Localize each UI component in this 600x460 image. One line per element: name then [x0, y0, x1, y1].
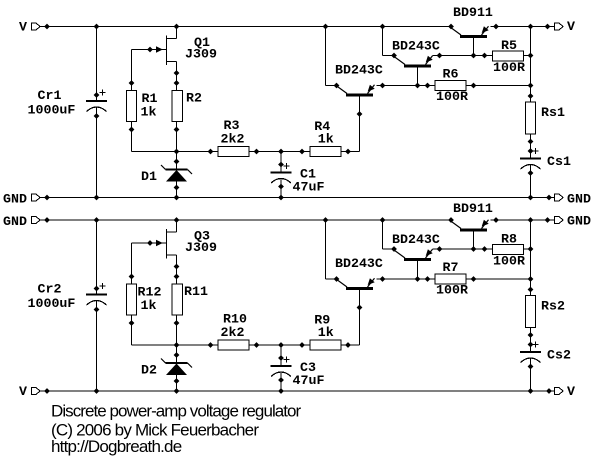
Cr2 plus sign	[99, 283, 105, 289]
junction R4 left pin	[299, 149, 305, 155]
zener diode D1	[161, 165, 192, 182]
wire Q-drv-2 emitter to R8	[433, 248, 493, 250]
wire rail to Q3 drain	[176, 220, 178, 232]
svg-text:BD911: BD911	[453, 5, 493, 20]
svg-text:V: V	[567, 19, 575, 34]
svg-text:R7: R7	[443, 260, 459, 275]
wire Cr2 to V- (bottom)	[96, 301, 98, 391]
junction Cr1 + pin	[94, 92, 100, 98]
zener diode D2	[161, 359, 192, 376]
svg-text:100R: 100R	[493, 254, 525, 269]
Cs2 plus sign	[532, 341, 538, 347]
junction R7 left pin	[425, 276, 431, 282]
svg-text:V: V	[19, 20, 27, 35]
junction bus / sense column	[528, 276, 534, 282]
junction pin dot GND (lower) left	[44, 217, 50, 223]
junction Q3 source wire	[174, 264, 180, 270]
wire V- (bottom) rail	[40, 390, 555, 392]
junction Cr2 + pin	[94, 286, 100, 292]
wire feedback bus segment a	[383, 85, 436, 87]
svg-text:Rs2: Rs2	[541, 299, 565, 314]
wire GND (lower) rail left segment	[40, 219, 452, 221]
svg-text:Cs1: Cs1	[547, 154, 571, 169]
junction D2 cathode pin	[174, 352, 180, 358]
junction D1 cathode pin	[174, 159, 180, 165]
wire R12 bottom	[131, 315, 133, 345]
junction Q-err-2 emitter pin	[380, 276, 386, 282]
junction Rs2 top pin	[528, 287, 534, 293]
junction R11 bottom pin	[174, 320, 180, 326]
wire Rs2 to Cs2	[530, 328, 532, 353]
junction rail / Q1 drain	[174, 24, 180, 30]
junction R1 bottom pin	[129, 127, 135, 133]
resistor R5 100R	[493, 51, 524, 61]
resistor Rs2	[526, 296, 536, 328]
svg-text:Cs2: Cs2	[547, 348, 571, 363]
junction Q-drv-2 collector pin	[391, 246, 397, 252]
junction rail / Q-drv-2 collector	[380, 217, 386, 223]
wire V+ (top) rail right segment	[496, 26, 555, 28]
junction pin dot V- (bottom) right	[546, 388, 552, 394]
C1 plus sign	[283, 163, 289, 169]
junction rail / Q-err-2 collector	[323, 217, 329, 223]
resistor R3 2k2	[218, 147, 249, 157]
wire Q-drv-2 collector riser to rail	[382, 220, 384, 249]
capacitor C1 47uF	[271, 173, 292, 184]
wire Cs1 to GND (upper)	[530, 165, 532, 198]
junction Cr1 / GND (upper)	[94, 195, 100, 201]
wire bus to D2	[176, 345, 178, 363]
Cs1 plus sign	[532, 148, 538, 154]
wire Q1 gate to R1	[131, 50, 133, 91]
junction R3 left pin	[208, 149, 214, 155]
resistor R9 1k	[310, 340, 341, 350]
svg-text:47uF: 47uF	[293, 180, 325, 195]
port GND (lower) right connector	[555, 216, 564, 223]
junction rail / Q-pass-2 collector	[448, 217, 454, 223]
wire Q-pass-1 emitter stub	[491, 26, 497, 28]
transistor Q-drv-1 BD243C driver	[394, 56, 433, 86]
wire V+ (top) rail left segment	[40, 26, 452, 28]
junction R2 bottom pin	[174, 127, 180, 133]
wire Q-drv-1 collector riser to rail	[382, 27, 384, 56]
transistor Q1 J309 JFET	[132, 36, 177, 66]
junction R6 right pin	[471, 83, 477, 89]
junction Q-pass-1 emitter / rail	[493, 24, 499, 30]
transistor Q3 J309 JFET	[132, 229, 177, 259]
junction D1 anode pin	[174, 185, 180, 191]
capacitor Cs2	[520, 352, 541, 363]
wire bus to D1	[176, 152, 178, 170]
svg-text:1000uF: 1000uF	[28, 103, 76, 118]
transistor Q-drv-2 BD243C driver	[394, 249, 433, 279]
port GND (upper) left connector	[32, 194, 41, 201]
resistor R1 1k	[127, 91, 137, 122]
junction rail / Q-pass-1 collector	[448, 24, 454, 30]
junction R12 bottom pin	[129, 320, 135, 326]
svg-text:R2: R2	[186, 91, 202, 106]
junction Q-err-1 collector pin	[334, 83, 340, 89]
port GND (upper) right connector	[555, 194, 564, 201]
junction R6 left pin	[425, 83, 431, 89]
junction bus / D2	[174, 342, 180, 348]
wire Q-drv-2 collector	[383, 248, 395, 250]
svg-text:Cr2: Cr2	[38, 282, 62, 297]
capacitor Cr2 1000uF	[86, 295, 107, 306]
wire Q-pass-2 emitter stub	[491, 219, 497, 221]
junction C1 - pin	[278, 184, 284, 190]
svg-text:R11: R11	[184, 284, 208, 299]
capacitor Cr1 1000uF	[86, 101, 107, 112]
wire Q-err-2 emitter stub	[377, 278, 383, 280]
junction Q-drv-2 emitter pin	[437, 246, 443, 252]
wire R11 bottom	[176, 315, 178, 345]
svg-text:Rs1: Rs1	[541, 105, 565, 120]
wire rail to Cr2	[96, 220, 98, 295]
wire reference bus segment c	[341, 344, 360, 346]
junction Q-err-2 base wire dot	[357, 305, 363, 311]
svg-text:1k: 1k	[141, 105, 157, 120]
svg-text:R5: R5	[501, 38, 517, 53]
junction Rs2 bottom pin	[528, 332, 534, 338]
svg-text:V: V	[567, 384, 575, 399]
capacitor Cs1	[520, 159, 541, 170]
junction Cs2 - pin	[528, 364, 534, 370]
svg-text:100R: 100R	[493, 60, 525, 75]
junction Cr2 / V- (bottom)	[94, 388, 100, 394]
transistor Q-err-1 BD243C	[336, 85, 375, 152]
wire D1 to GND (upper)	[176, 182, 178, 198]
wire reference bus segment a	[132, 344, 219, 346]
junction Q1 source wire	[174, 70, 180, 76]
junction sense column / GND (upper)	[528, 195, 534, 201]
junction Q-err-2 collector pin	[334, 276, 340, 282]
svg-text:GND: GND	[567, 214, 591, 229]
junction rail / Q3 drain	[174, 217, 180, 223]
junction D1 / GND (upper)	[174, 195, 180, 201]
svg-text:47uF: 47uF	[293, 373, 325, 388]
wire Q-err-1 collector	[326, 85, 337, 87]
svg-text:BD243C: BD243C	[335, 256, 383, 271]
svg-text:GND: GND	[3, 192, 27, 207]
wire C1 to GND (upper)	[280, 179, 282, 198]
resistor R10 2k2	[218, 340, 249, 350]
svg-text:Discrete power-amp voltage reg: Discrete power-amp voltage regulator	[51, 402, 302, 421]
junction Rs1 bottom pin	[528, 139, 534, 145]
junction bus / C1	[278, 149, 284, 155]
wire rail to Q1 drain	[176, 27, 178, 39]
svg-text:D1: D1	[141, 169, 157, 184]
svg-text:100R: 100R	[436, 89, 468, 104]
junction R10 left pin	[208, 342, 214, 348]
junction bus / C3	[278, 342, 284, 348]
svg-text:BD243C: BD243C	[335, 63, 383, 78]
resistor R11	[172, 284, 183, 315]
junction Cr1 - pin	[94, 113, 100, 119]
svg-text:2k2: 2k2	[221, 325, 245, 340]
wire bus to C1	[280, 152, 282, 173]
junction rail / Cr1	[94, 24, 100, 30]
svg-text:http://Dogbreath.de: http://Dogbreath.de	[51, 437, 182, 456]
junction R2 top pin	[174, 80, 180, 86]
svg-text:J309: J309	[185, 47, 217, 62]
wire feedback bus segment b	[466, 85, 531, 87]
junction R1 top pin	[129, 80, 135, 86]
svg-text:1k: 1k	[318, 325, 334, 340]
junction C3 - pin	[278, 377, 284, 383]
wire R5 right stub	[524, 55, 531, 57]
transistor Q-pass-1 BD911 pass device	[450, 26, 489, 55]
port V- (bottom) right connector	[555, 387, 564, 394]
transistor Q-err-2 BD243C	[336, 278, 375, 345]
svg-text:1000uF: 1000uF	[28, 296, 76, 311]
junction rail / sense column	[528, 24, 534, 30]
wire sense column upper	[530, 27, 532, 103]
junction Q-drv-1 collector pin	[391, 53, 397, 59]
junction pin dot V+ (top) right	[545, 24, 551, 30]
junction C3 + pin	[278, 355, 284, 361]
resistor R6 100R	[435, 81, 466, 91]
wire R1 bottom	[131, 122, 133, 152]
junction C1 + pin	[278, 162, 284, 168]
wire reference bus segment b	[249, 151, 310, 153]
wire Q3 source down	[176, 255, 178, 284]
svg-text:V: V	[19, 384, 27, 399]
junction D2 / V- (bottom)	[174, 388, 180, 394]
wire R8 right stub	[524, 248, 531, 250]
junction Q-err-1 emitter pin	[380, 83, 386, 89]
junction pin dot GND (upper) left	[44, 195, 50, 201]
junction R5 left pin	[482, 53, 488, 59]
junction rail / Q-drv-1 collector	[380, 24, 386, 30]
wire Q1 source down	[176, 62, 178, 91]
junction dot on Q3 gate wire	[147, 240, 153, 246]
wire C3 to V- (bottom)	[280, 372, 282, 391]
svg-text:1k: 1k	[141, 298, 157, 313]
svg-text:D2: D2	[141, 363, 157, 378]
junction R4 right pin	[345, 149, 351, 155]
wire Q-drv-1 emitter to R5	[433, 55, 493, 57]
junction bus / D1	[174, 149, 180, 155]
wire feedback bus segment b	[466, 278, 531, 280]
svg-text:BD243C: BD243C	[392, 39, 440, 54]
wire sense column upper	[530, 220, 532, 296]
junction sense column / V- (bottom)	[528, 388, 534, 394]
wire Q-err-1 collector riser to rail	[325, 27, 327, 86]
C3 plus sign	[283, 356, 289, 362]
junction R9 right pin	[345, 342, 351, 348]
svg-text:GND: GND	[3, 214, 27, 229]
wire Cs2 to V- (bottom)	[530, 358, 532, 391]
wire reference bus segment c	[341, 151, 360, 153]
port GND (lower) left connector	[32, 216, 41, 223]
junction bus / Q-drv-1 base	[415, 83, 421, 89]
junction R11 top pin	[174, 274, 180, 280]
wire reference bus segment b	[249, 344, 310, 346]
svg-text:R6: R6	[443, 67, 459, 82]
junction bus / sense column	[528, 83, 534, 89]
junction rail / Cr2	[94, 217, 100, 223]
junction R5 right pin / column	[528, 53, 534, 59]
capacitor C3 47uF	[271, 366, 292, 377]
junction D2 anode pin	[174, 378, 180, 384]
wire Q-drv-1 collector	[383, 55, 395, 57]
svg-text:Cr1: Cr1	[38, 88, 62, 103]
port V- (bottom) left connector	[32, 387, 41, 394]
svg-text:R8: R8	[501, 232, 517, 247]
svg-text:2k2: 2k2	[221, 132, 245, 147]
svg-text:GND: GND	[567, 192, 591, 207]
junction Q-err-1 base wire dot	[357, 111, 363, 117]
junction Q-pass-2 base junction	[471, 246, 477, 252]
wire bus to C3	[280, 345, 282, 366]
junction pin dot V- (bottom) left	[44, 388, 50, 394]
wire GND (upper) rail	[40, 197, 555, 199]
wire Rs1 to Cs1	[530, 134, 532, 159]
junction Q-drv-1 emitter pin	[437, 53, 443, 59]
wire Q-err-1 emitter stub	[377, 85, 383, 87]
wire R2 bottom	[176, 122, 178, 152]
svg-text:100R: 100R	[436, 283, 468, 298]
svg-text:BD243C: BD243C	[392, 232, 440, 247]
wire rail to Cr1	[96, 27, 98, 102]
wire Q-err-2 collector riser to rail	[325, 220, 327, 279]
junction C1 / GND (upper)	[278, 195, 284, 201]
wire Cr1 to GND (upper)	[96, 108, 98, 198]
resistor R4 1k	[310, 147, 341, 157]
junction R12 top pin	[129, 274, 135, 280]
resistor R2	[172, 91, 183, 122]
wire D2 to V- (bottom)	[176, 375, 178, 391]
junction R7 right pin	[471, 276, 477, 282]
junction R8 right pin / column	[528, 246, 534, 252]
junction pin dot GND (upper) right	[546, 195, 552, 201]
junction Cs1 + pin	[528, 148, 534, 154]
junction pin dot GND (lower) right	[545, 217, 551, 223]
junction R10 right pin	[254, 342, 260, 348]
port V+ (top) left connector	[32, 23, 41, 30]
resistor Rs1	[526, 102, 536, 134]
Cr1 plus sign	[99, 89, 105, 95]
wire GND (lower) rail right segment	[496, 219, 555, 221]
junction R9 left pin	[299, 342, 305, 348]
transistor Q-pass-2 BD911 pass device	[450, 220, 489, 249]
resistor R12 1k	[127, 284, 137, 315]
junction Q-pass-2 emitter / rail	[493, 217, 499, 223]
junction Rs1 top pin	[528, 93, 534, 99]
junction Cr2 - pin	[94, 307, 100, 313]
junction bus / Q-drv-2 base	[415, 276, 421, 282]
junction C3 / V- (bottom)	[278, 388, 284, 394]
wire Q3 gate to R12	[131, 243, 133, 284]
resistor R7 100R	[435, 274, 466, 284]
wire Q-err-2 collector	[326, 278, 337, 280]
resistor R8 100R	[493, 245, 524, 255]
wire feedback bus segment a	[383, 278, 436, 280]
junction Cs2 + pin	[528, 342, 534, 348]
junction Q-pass-1 base junction	[471, 53, 477, 59]
port V+ (top) right connector	[555, 23, 564, 30]
svg-text:BD911: BD911	[453, 201, 493, 216]
wire reference bus segment a	[132, 151, 219, 153]
svg-text:1k: 1k	[318, 131, 334, 146]
junction rail / sense column	[528, 217, 534, 223]
junction Cs1 - pin	[528, 170, 534, 176]
junction pin dot V+ (top) left	[44, 24, 50, 30]
svg-text:J309: J309	[185, 240, 217, 255]
junction rail / Q-err-1 collector	[323, 24, 329, 30]
junction R8 left pin	[482, 246, 488, 252]
junction R3 right pin	[254, 149, 260, 155]
junction dot on Q1 gate wire	[147, 47, 153, 53]
